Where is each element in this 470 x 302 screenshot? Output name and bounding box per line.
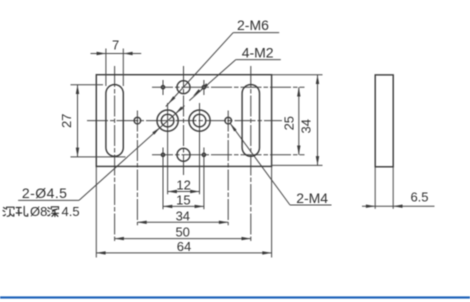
dimension 7 — [91, 37, 142, 55]
svg-text:50: 50 — [175, 225, 189, 240]
svg-text:2-Ø4.5: 2-Ø4.5 — [22, 185, 68, 201]
hole M2 bottom-right — [202, 153, 205, 156]
svg-text:4.5: 4.5 — [62, 204, 80, 219]
hole counterbore right — [189, 110, 210, 131]
wire leader 4-M2 — [189, 60, 236, 101]
svg-text:12: 12 — [176, 178, 190, 193]
hole M4 right — [225, 117, 232, 124]
dimension 50 bottom — [115, 225, 251, 241]
wire horizontal main centerline — [87, 120, 282, 122]
label 2-D4.5 counterbore line1 — [18, 185, 79, 201]
dimension 34 right — [299, 75, 320, 166]
node M4 right centerline / ext — [227, 111, 229, 226]
divider bottom blue line — [0, 296, 470, 298]
svg-text:6.5: 6.5 — [410, 190, 428, 205]
wire ext lines for dim 7 (slot edges up) — [106, 49, 123, 87]
label 2-M6 — [233, 17, 279, 33]
node M2 right vertical ticks / ext — [203, 80, 205, 209]
node top hole row centerline — [152, 86, 305, 88]
wire side view ext lines — [375, 167, 393, 209]
hole M6 top — [177, 81, 190, 94]
dimension 34 bottom — [137, 208, 228, 224]
node arrow 2-M4 leader — [230, 123, 237, 131]
node right counterbore centerline — [199, 103, 201, 194]
wire leader 2-M4 — [230, 123, 290, 205]
svg-text:27: 27 — [59, 114, 74, 128]
node arrow on 4-M2 leader below hole — [193, 89, 201, 96]
svg-text:34: 34 — [299, 119, 314, 133]
node arrow counterbore leader upper — [175, 107, 183, 114]
hole M2 top-left — [161, 86, 164, 89]
slot left — [106, 85, 123, 157]
node arrow counterbore leader lower — [152, 128, 160, 135]
plate front view outline — [96, 75, 271, 167]
dimension 25 — [282, 87, 301, 155]
node arrow on 4-M2 leader at hole — [200, 83, 208, 90]
wire ext lines for dim 27 — [71, 85, 126, 157]
dimension 6.5 — [362, 190, 435, 208]
svg-text:34: 34 — [176, 208, 190, 223]
side view outline — [375, 75, 393, 167]
node right slot centerline — [250, 66, 252, 242]
node bottom hole row centerline — [152, 154, 305, 156]
label counterbore line2 (CJK: chen-kong D8 shen 4.5) — [3, 204, 80, 219]
slot right — [242, 85, 259, 157]
wire ext left plate edge down — [95, 166, 97, 257]
dimension 12 bottom — [168, 178, 200, 194]
node left counterbore centerline — [167, 103, 169, 194]
svg-text:15: 15 — [176, 192, 190, 207]
wire leader 2-M6 — [166, 33, 233, 107]
node left slot centerline — [114, 66, 116, 242]
svg-text:25: 25 — [282, 116, 297, 130]
hole M2 top-right — [202, 86, 205, 89]
node arrow on 2-M6 leader — [168, 96, 175, 104]
svg-text:Ø8: Ø8 — [30, 204, 47, 219]
label 4-M2 — [236, 44, 281, 60]
node M2 left vertical ticks / ext — [162, 80, 164, 209]
hole M4 left — [134, 117, 141, 124]
node M4 left centerline / ext — [136, 111, 138, 226]
wire leader counterbore label — [79, 106, 185, 201]
wire ext lines for dim 34 right — [272, 75, 323, 166]
dimension 27 — [59, 85, 79, 157]
svg-text:2-M4: 2-M4 — [296, 190, 328, 206]
svg-text:64: 64 — [177, 239, 191, 254]
hole M6 bottom — [177, 148, 190, 161]
node mid vertical centerline — [183, 66, 185, 175]
svg-text:7: 7 — [112, 37, 119, 52]
label 2-M4 — [290, 190, 332, 206]
wire ext right plate edge down — [271, 166, 273, 257]
dimension 15 bottom — [163, 192, 204, 208]
hole M2 bottom-left — [161, 153, 164, 156]
dimension 64 bottom — [96, 239, 271, 255]
hole counterbore left (2-D4.5 / cb D8) — [157, 110, 178, 131]
svg-text:4-M2: 4-M2 — [242, 44, 274, 60]
svg-text:2-M6: 2-M6 — [237, 17, 269, 33]
